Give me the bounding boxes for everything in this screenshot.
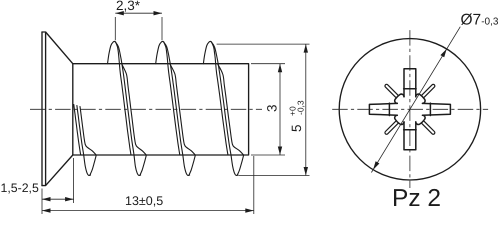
svg-text:2,3*: 2,3* <box>116 0 141 13</box>
svg-text:Pz 2: Pz 2 <box>392 185 441 212</box>
svg-text:5: 5 <box>289 124 304 132</box>
svg-text:1,5-2,5: 1,5-2,5 <box>1 181 39 195</box>
svg-text:13±0,5: 13±0,5 <box>125 194 163 208</box>
svg-text:-0,3: -0,3 <box>295 100 305 115</box>
svg-text:3: 3 <box>265 104 280 112</box>
